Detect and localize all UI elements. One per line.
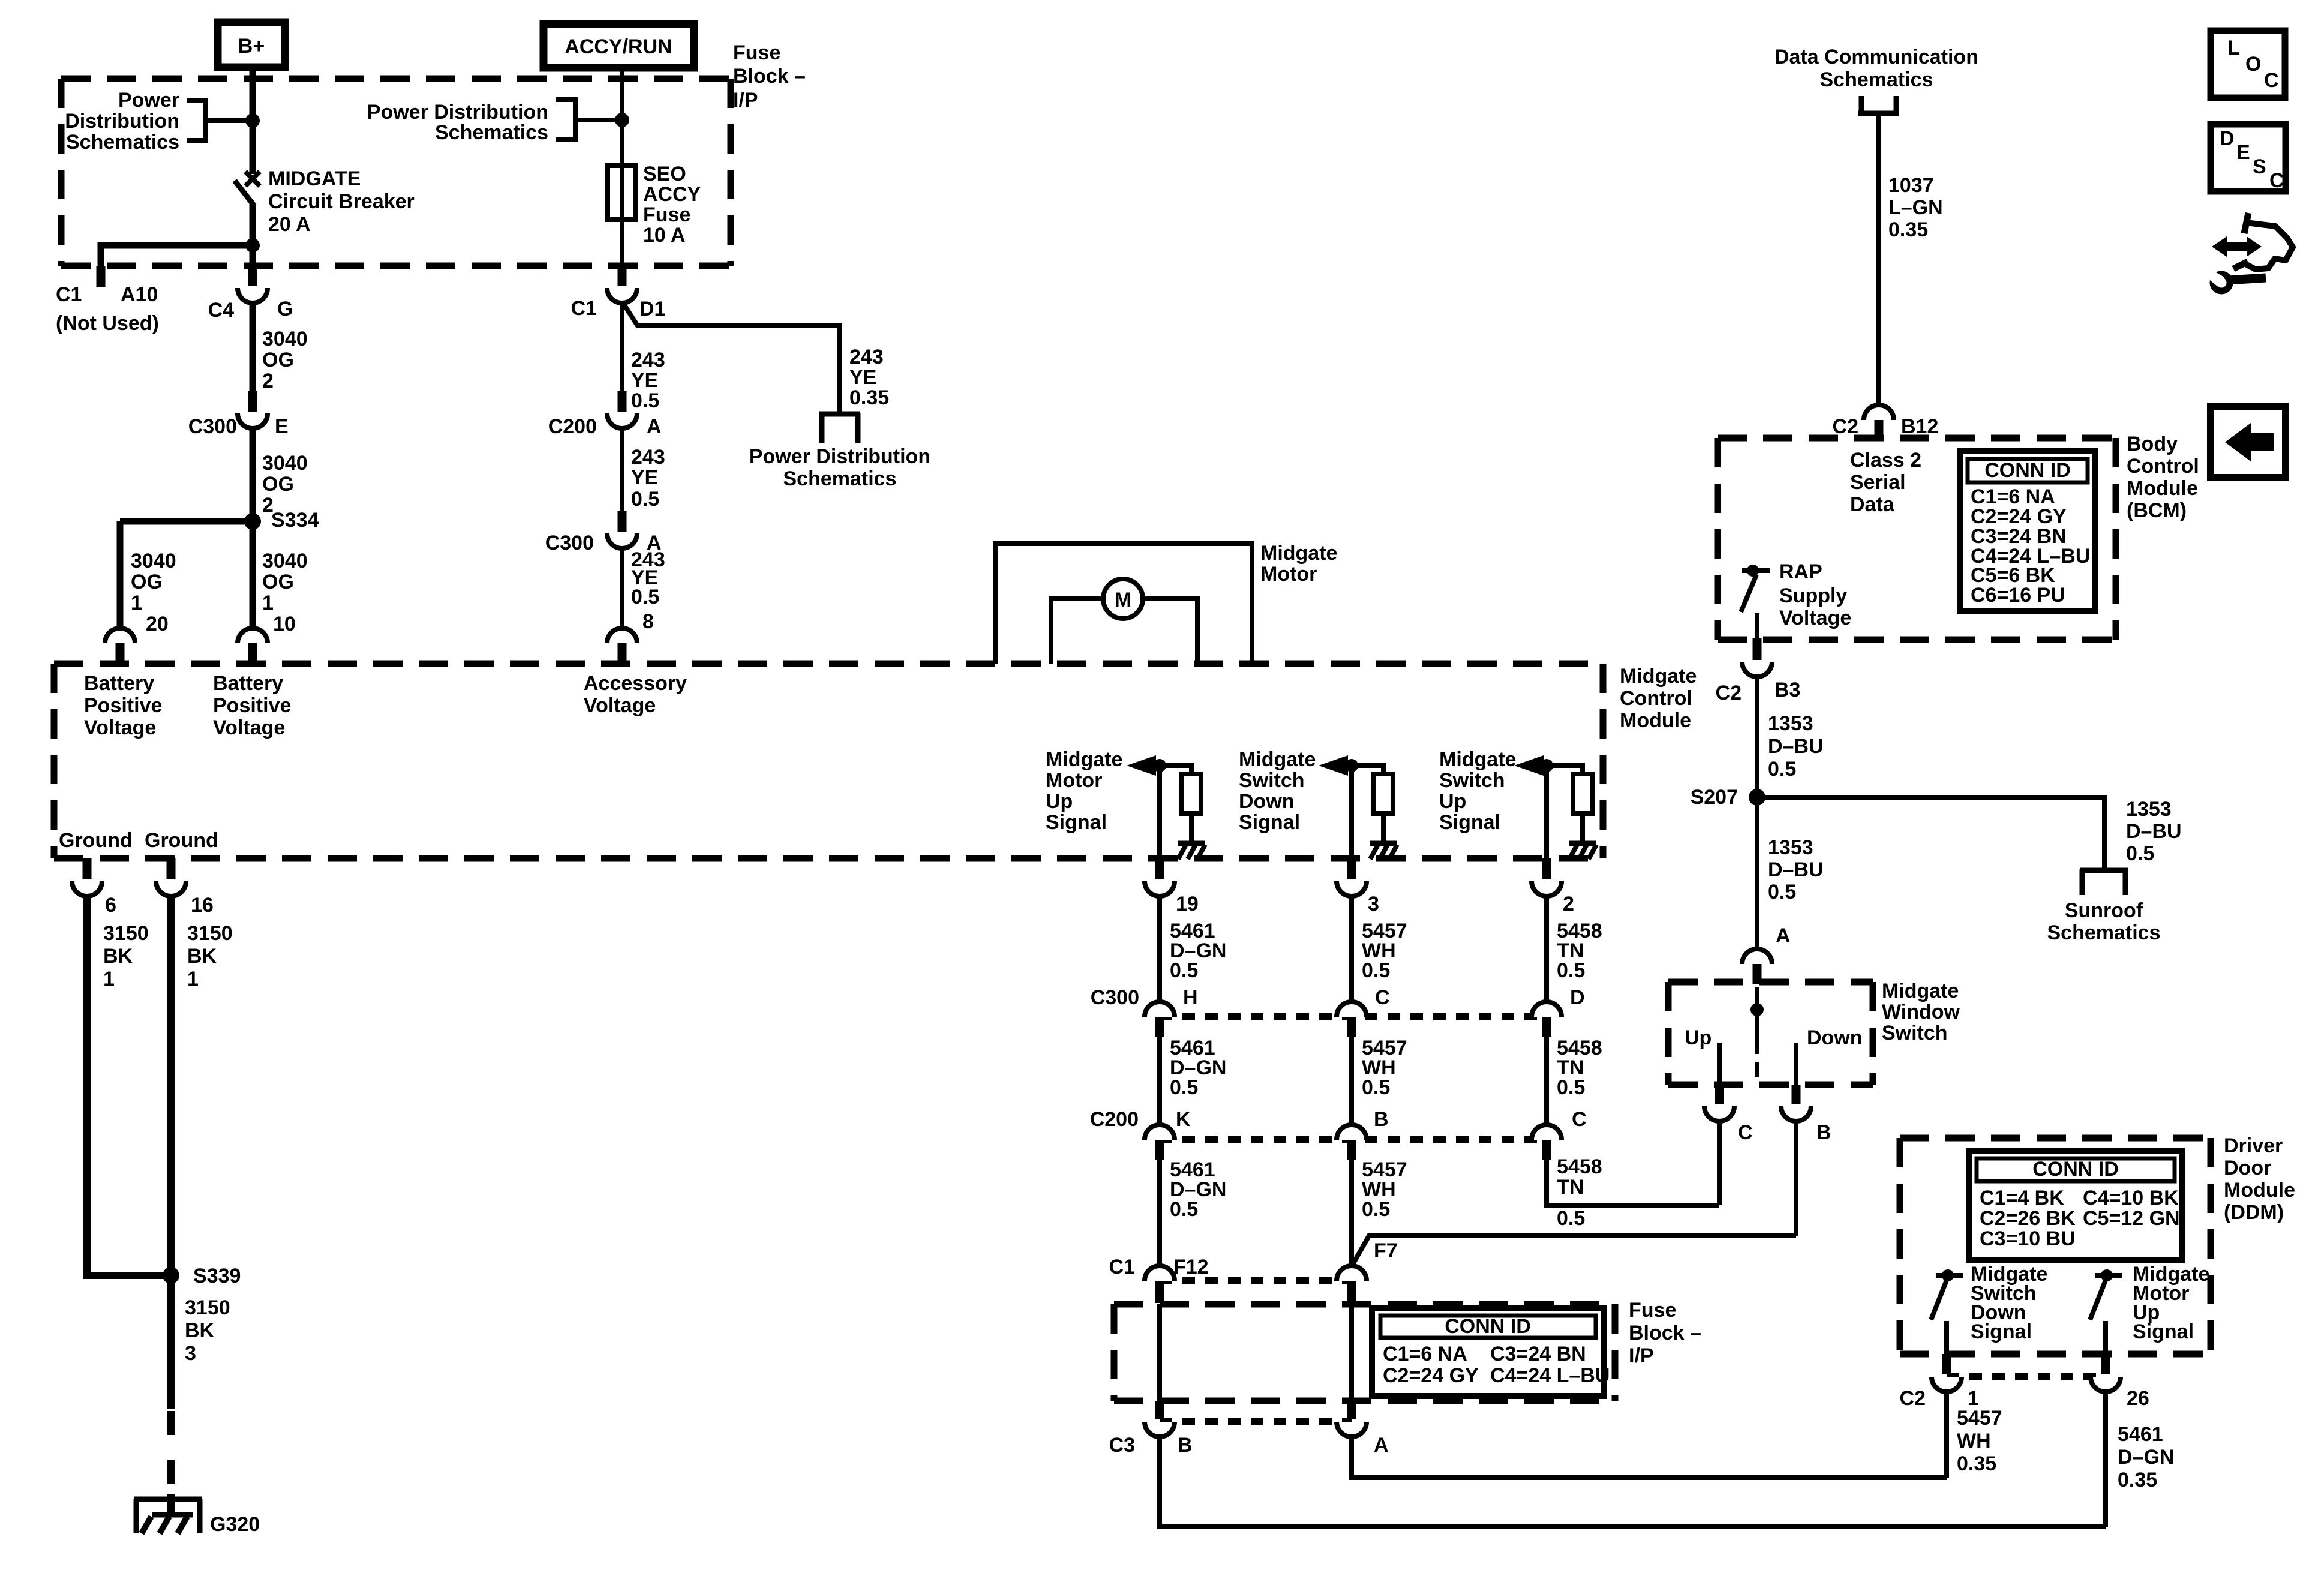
connector pin A (window switch) — [1742, 949, 1772, 964]
connector C2 pin B3 — [1753, 638, 1762, 660]
wire 5457 WH 0.5 (C200 to C1 F7) — [1349, 1160, 1354, 1267]
svg-text:TN: TN — [1557, 1176, 1584, 1199]
svg-text:8: 8 — [642, 610, 654, 633]
body control module (BCM) dashed box — [1718, 435, 2116, 442]
svg-text:Schematics: Schematics — [1820, 68, 1933, 91]
svg-text:C: C — [1572, 1108, 1587, 1131]
icon DESC box — [2211, 124, 2286, 191]
wire 1353 D-BU 0.5 (S207 to window switch A) — [1755, 797, 1759, 950]
svg-text:0.5: 0.5 — [1557, 1076, 1585, 1099]
splice S207 — [1749, 789, 1765, 806]
svg-text:Distribution: Distribution — [65, 110, 179, 133]
svg-text:1353: 1353 — [1768, 712, 1813, 735]
switch Midgate Motor Up Signal (DDM) — [2095, 1273, 2122, 1278]
wire 5457 WH (C3 A to DDM pin 1) — [1352, 1437, 1947, 1478]
svg-text:Schematics: Schematics — [66, 131, 179, 154]
switch Midgate Switch Down Signal (DDM) — [1936, 1273, 1963, 1278]
wire ACCY down — [620, 68, 624, 267]
svg-text:Ground: Ground — [59, 829, 133, 852]
svg-text:L–GN: L–GN — [1888, 196, 1943, 219]
svg-text:0.5: 0.5 — [1362, 1198, 1390, 1221]
svg-text:Signal: Signal — [1046, 811, 1107, 834]
svg-text:Motor: Motor — [1260, 563, 1317, 586]
svg-text:S: S — [2253, 155, 2266, 178]
svg-text:Control: Control — [1620, 687, 1692, 710]
svg-text:Class 2: Class 2 — [1850, 449, 1921, 472]
svg-text:MIDGATE: MIDGATE — [268, 167, 361, 190]
connector pin 8 — [607, 628, 637, 643]
svg-text:16: 16 — [191, 894, 214, 917]
svg-text:C300: C300 — [188, 415, 237, 438]
resistor (module internal) — [1374, 774, 1393, 813]
svg-text:0.35: 0.35 — [1888, 218, 1928, 241]
svg-text:D: D — [1570, 986, 1585, 1009]
svg-text:1: 1 — [262, 592, 274, 614]
svg-text:Control: Control — [2127, 455, 2199, 478]
svg-text:Fuse: Fuse — [643, 203, 690, 226]
wire 3150 BK 3 (S339 to G320) — [167, 1275, 175, 1409]
svg-text:D1: D1 — [639, 298, 665, 320]
svg-text:RAP: RAP — [1779, 560, 1822, 583]
ground G320 — [134, 1499, 139, 1533]
svg-text:10: 10 — [273, 613, 296, 635]
svg-text:C4: C4 — [208, 299, 235, 322]
svg-text:5458: 5458 — [1557, 1155, 1602, 1178]
connector row C2 pins 1 / 26 — [1942, 1354, 1951, 1374]
svg-text:Down: Down — [1807, 1026, 1863, 1049]
svg-text:20 A: 20 A — [268, 213, 311, 236]
wire 5457 WH 0.35 (pin 1) — [1944, 1392, 1949, 1478]
svg-text:0.5: 0.5 — [2126, 842, 2154, 865]
svg-text:C200: C200 — [548, 415, 597, 438]
svg-text:K: K — [1176, 1108, 1191, 1131]
svg-text:H: H — [1183, 986, 1198, 1009]
wire breaker to junction — [250, 204, 256, 245]
svg-text:C1=6 NA: C1=6 NA — [1383, 1343, 1467, 1365]
junction dot at B+/Power Distribution tap — [245, 113, 260, 128]
svg-text:SEO: SEO — [643, 163, 686, 185]
svg-text:1: 1 — [187, 968, 199, 990]
svg-text:ACCY: ACCY — [643, 183, 701, 206]
svg-text:BK: BK — [103, 945, 133, 968]
junction dot below breaker — [245, 238, 260, 253]
svg-text:1037: 1037 — [1888, 174, 1934, 197]
svg-text:0.5: 0.5 — [631, 488, 659, 511]
wire signal down to module edge — [1349, 766, 1354, 860]
svg-text:Midgate: Midgate — [1046, 748, 1122, 771]
wire 243 YE 0.5 (C200 to C300) — [620, 428, 624, 512]
wire 1353 D-BU 0.5 (S207 to sunroof) — [1757, 797, 2104, 869]
arrow Midgate Motor Up Signal — [1127, 755, 1156, 776]
svg-text:0.5: 0.5 — [631, 586, 659, 608]
svg-text:I/P: I/P — [1629, 1344, 1654, 1367]
svg-text:Module: Module — [2224, 1179, 2295, 1202]
off-page symbol Sunroof Schematics — [2080, 869, 2085, 895]
svg-text:C2=26 BK: C2=26 BK — [1980, 1207, 2076, 1230]
svg-text:A: A — [647, 415, 662, 438]
svg-text:S339: S339 — [193, 1265, 241, 1287]
connector pin 2 — [1542, 858, 1551, 879]
svg-text:Midgate: Midgate — [1439, 748, 1516, 771]
wire 1037 L-GN 0.35 — [1876, 116, 1881, 406]
svg-text:D: D — [2220, 127, 2235, 150]
connector pin 10 — [238, 628, 268, 643]
svg-text:Up: Up — [1439, 790, 1466, 813]
svg-text:3150: 3150 — [103, 922, 149, 945]
svg-text:0.5: 0.5 — [1170, 1076, 1198, 1099]
svg-text:OG: OG — [262, 571, 294, 593]
connector row C300 H/C/D — [1160, 1013, 1547, 1020]
svg-text:B3: B3 — [1774, 679, 1800, 701]
svg-text:Battery: Battery — [84, 672, 154, 695]
wire 243 YE 0.5 (D1 to C200) — [620, 303, 624, 392]
svg-text:B: B — [1374, 1108, 1389, 1131]
svg-text:1353: 1353 — [1768, 836, 1813, 859]
svg-text:WH: WH — [1957, 1430, 1991, 1452]
svg-text:0.35: 0.35 — [2118, 1469, 2157, 1491]
svg-text:20: 20 — [146, 613, 169, 635]
svg-text:Voltage: Voltage — [1779, 607, 1851, 629]
wire F12 through fuse block — [1157, 1304, 1162, 1402]
svg-text:YE: YE — [849, 366, 876, 389]
svg-text:Block –: Block – — [733, 65, 806, 88]
svg-text:B: B — [1178, 1434, 1193, 1457]
svg-text:(Not Used): (Not Used) — [56, 312, 159, 335]
icon diagnostic (double arrow, door, wrench) — [2212, 236, 2262, 257]
svg-text:A: A — [1374, 1434, 1389, 1457]
svg-text:B+: B+ — [238, 35, 265, 58]
wire 5461 D-GN 0.5 (pin19 to C300 H) — [1157, 896, 1162, 1003]
svg-text:Positive: Positive — [84, 694, 162, 717]
wire diagonal F7 to window switch B — [1352, 1236, 1796, 1266]
svg-text:Schematics: Schematics — [783, 467, 897, 490]
motor M leads — [1051, 599, 1103, 664]
svg-text:1: 1 — [103, 968, 115, 990]
svg-text:YE: YE — [631, 466, 658, 489]
svg-text:C: C — [2264, 69, 2279, 92]
motor M circle — [1103, 579, 1143, 619]
svg-text:Signal: Signal — [1971, 1320, 2032, 1343]
wire 3040 OG 2 (C4 to C300) — [250, 303, 256, 392]
svg-text:BK: BK — [185, 1319, 215, 1342]
svg-text:M: M — [1115, 589, 1131, 611]
svg-text:Data Communication: Data Communication — [1774, 46, 1978, 68]
wire 5458 TN 0.5 (pin2 to C300 D) — [1544, 896, 1549, 1003]
svg-text:Positive: Positive — [213, 694, 291, 717]
svg-text:C1: C1 — [571, 297, 597, 320]
connector pin 20 — [105, 628, 135, 643]
connector row C3 B/A — [1155, 1401, 1164, 1419]
svg-text:Midgate: Midgate — [1620, 665, 1697, 688]
ground (module internal) — [1370, 841, 1397, 846]
connector pin 19 — [1155, 858, 1164, 879]
svg-text:A10: A10 — [121, 283, 158, 306]
svg-text:243: 243 — [849, 346, 884, 368]
svg-text:Voltage: Voltage — [213, 716, 285, 739]
wire B+ down to breaker — [250, 67, 256, 174]
svg-text:Fuse: Fuse — [1629, 1299, 1676, 1322]
wire 5457 WH 0.5 (C300 to C200) — [1349, 1037, 1354, 1126]
icon back-arrow box — [2211, 407, 2286, 478]
wire 3040 OG 1 left branch to pin 20 — [117, 521, 124, 629]
svg-text:D–GN: D–GN — [2118, 1446, 2174, 1469]
svg-text:(DDM): (DDM) — [2224, 1201, 2284, 1224]
svg-text:C300: C300 — [545, 532, 594, 554]
svg-text:C200: C200 — [1090, 1108, 1139, 1131]
svg-text:C300: C300 — [1091, 986, 1139, 1009]
junction dot — [1345, 759, 1358, 772]
wire 3150 BK 1 (pin 6 to S339) — [87, 896, 171, 1275]
wire switch B down — [1794, 1121, 1798, 1236]
svg-text:Door: Door — [2224, 1157, 2271, 1179]
svg-text:CONN ID: CONN ID — [1445, 1315, 1531, 1338]
circuit breaker MIDGATE 20 A — [245, 172, 260, 186]
svg-text:Midgate: Midgate — [1260, 542, 1337, 565]
connector pin C — [1715, 1085, 1724, 1104]
svg-text:OG: OG — [262, 349, 294, 371]
svg-text:3040: 3040 — [262, 550, 308, 572]
svg-text:BK: BK — [187, 945, 217, 968]
svg-text:0.5: 0.5 — [1170, 1198, 1198, 1221]
off-page symbol Power Distribution Schematics (branch) — [819, 413, 825, 443]
svg-text:0.5: 0.5 — [1362, 1076, 1390, 1099]
svg-text:Motor: Motor — [1046, 769, 1102, 792]
svg-text:Accessory: Accessory — [584, 672, 687, 695]
svg-text:3040: 3040 — [131, 550, 176, 572]
splice S334 — [120, 518, 253, 525]
svg-text:D–BU: D–BU — [1768, 735, 1824, 758]
CONN ID table (BCM) — [1960, 451, 2095, 611]
resistor (module internal) — [1573, 774, 1592, 813]
svg-text:E: E — [2236, 141, 2250, 164]
wire 5461 D-GN 0.35 (pin 26) — [2103, 1392, 2108, 1527]
svg-text:2: 2 — [262, 370, 274, 392]
svg-text:0.5: 0.5 — [1768, 758, 1796, 781]
svg-text:E: E — [275, 415, 289, 438]
svg-text:3150: 3150 — [185, 1296, 230, 1319]
wire resistor to ground — [1381, 813, 1386, 842]
svg-text:Signal: Signal — [1439, 811, 1500, 834]
svg-text:Voltage: Voltage — [84, 716, 156, 739]
svg-text:I/P: I/P — [733, 89, 758, 112]
wire 243 YE 0.5 (C300 to pin 8) — [620, 548, 624, 629]
svg-text:B: B — [1816, 1121, 1831, 1144]
junction dot — [1540, 759, 1553, 772]
midgate window switch dashed box — [1668, 979, 1873, 986]
svg-text:A: A — [1776, 924, 1791, 947]
svg-text:Power: Power — [118, 89, 179, 112]
svg-text:OG: OG — [262, 473, 294, 496]
RAP supply voltage switch — [1742, 568, 1770, 573]
svg-text:0.5: 0.5 — [1557, 1207, 1585, 1230]
svg-text:Signal: Signal — [1239, 811, 1300, 834]
svg-text:Power Distribution: Power Distribution — [367, 101, 548, 124]
svg-text:3: 3 — [1368, 893, 1379, 915]
svg-text:19: 19 — [1176, 893, 1199, 915]
fuse block I/P (bottom) dashed box — [1114, 1301, 1615, 1308]
wire switch C down — [1717, 1121, 1722, 1205]
connector C300 pin A — [618, 511, 627, 532]
svg-text:S207: S207 — [1691, 786, 1738, 809]
svg-text:Circuit Breaker: Circuit Breaker — [268, 190, 415, 213]
svg-text:Schematics: Schematics — [2047, 921, 2161, 944]
svg-text:243: 243 — [631, 446, 665, 469]
CONN ID table (fuse block) — [1372, 1308, 1604, 1396]
wire 5461 D-GN 0.5 (C200 to C1 F12) — [1157, 1160, 1162, 1267]
wire 1353 D-BU 0.5 (B3 to S207) — [1755, 677, 1759, 797]
fuse SEO ACCY 10 A — [608, 166, 635, 220]
connector C1 pin D1 — [618, 265, 627, 286]
svg-text:G320: G320 — [210, 1513, 260, 1536]
svg-text:C2: C2 — [1833, 415, 1858, 438]
svg-text:F12: F12 — [1173, 1256, 1209, 1278]
svg-text:O: O — [2245, 53, 2261, 76]
svg-text:Ground: Ground — [145, 829, 218, 852]
svg-text:Module: Module — [2127, 477, 2198, 500]
svg-text:Window: Window — [1882, 1001, 1960, 1023]
svg-text:C1: C1 — [1109, 1256, 1135, 1278]
svg-text:YE: YE — [631, 369, 658, 392]
wire 5458 TN 0.5 (C200 C to window switch C) — [1547, 1160, 1719, 1205]
svg-text:Up: Up — [1685, 1026, 1712, 1049]
svg-text:3: 3 — [185, 1342, 196, 1365]
svg-text:C1=4 BK: C1=4 BK — [1980, 1187, 2064, 1209]
connector pin B — [1792, 1085, 1801, 1104]
svg-text:C4=10 BK: C4=10 BK — [2083, 1187, 2179, 1209]
svg-text:Sunroof: Sunroof — [2065, 899, 2143, 922]
svg-text:C1: C1 — [56, 283, 82, 306]
svg-text:Down: Down — [1239, 790, 1295, 813]
svg-text:243: 243 — [631, 349, 665, 371]
connector pin 6 — [83, 858, 92, 879]
connector row C1 F12/F7 — [1160, 1277, 1352, 1284]
svg-text:OG: OG — [131, 571, 163, 593]
svg-text:Switch: Switch — [1882, 1022, 1948, 1044]
svg-text:CONN ID: CONN ID — [1984, 459, 2071, 482]
svg-text:Switch: Switch — [1439, 769, 1505, 792]
svg-text:C: C — [2269, 169, 2284, 192]
wire 5458 TN 0.5 (C300 to C200) — [1544, 1037, 1549, 1126]
svg-text:Module: Module — [1620, 709, 1691, 732]
svg-text:C2: C2 — [1900, 1387, 1926, 1410]
svg-text:Up: Up — [1046, 790, 1073, 813]
connector C300 pin E — [248, 391, 257, 412]
svg-text:C: C — [1738, 1121, 1753, 1144]
svg-text:Signal: Signal — [2133, 1320, 2194, 1343]
svg-text:1353: 1353 — [2126, 798, 2172, 821]
svg-text:0.5: 0.5 — [1170, 959, 1198, 982]
wire 3040 OG 1 right branch to pin 10 — [250, 521, 256, 629]
wire arrow to resistor — [1542, 766, 1583, 775]
connector pin 3 — [1347, 858, 1356, 879]
CONN ID table (DDM) — [1969, 1151, 2182, 1260]
svg-text:Switch: Switch — [1239, 769, 1305, 792]
svg-text:ACCY/RUN: ACCY/RUN — [565, 35, 672, 58]
wire arrow to resistor — [1155, 766, 1191, 775]
switch wiper — [1755, 987, 1759, 1010]
svg-text:C5=12 GN: C5=12 GN — [2083, 1207, 2180, 1230]
svg-text:(BCM): (BCM) — [2127, 499, 2187, 522]
svg-text:G: G — [277, 298, 293, 320]
wire signal down to module edge — [1544, 766, 1549, 860]
ground (module internal) — [1178, 841, 1205, 846]
svg-text:Data: Data — [1850, 493, 1895, 516]
junction dot — [1153, 759, 1166, 772]
svg-text:3150: 3150 — [187, 922, 233, 945]
wire arrow to resistor — [1347, 766, 1383, 775]
wire resistor to ground — [1189, 813, 1194, 842]
wire 5461 D-GN 0.5 (C300 to C200) — [1157, 1037, 1162, 1126]
svg-text:C3=10 BU: C3=10 BU — [1980, 1227, 2076, 1250]
wire resistor to ground — [1580, 813, 1585, 842]
splice S339 — [163, 1267, 179, 1284]
svg-text:Driver: Driver — [2224, 1134, 2283, 1157]
svg-text:Battery: Battery — [213, 672, 283, 695]
svg-text:C: C — [1375, 986, 1390, 1009]
resistor (module internal) — [1182, 774, 1201, 813]
svg-text:B12: B12 — [1901, 415, 1938, 438]
icon LOC box — [2211, 31, 2285, 98]
svg-text:Fuse: Fuse — [733, 41, 780, 64]
svg-text:Power Distribution: Power Distribution — [749, 445, 930, 468]
connector C200 pin A — [618, 391, 627, 412]
svg-text:C2: C2 — [1716, 682, 1742, 704]
arrow Midgate Switch Up Signal — [1514, 755, 1544, 776]
wire F7 through fuse block — [1349, 1304, 1354, 1402]
svg-text:F7: F7 — [1374, 1239, 1398, 1262]
svg-text:5461: 5461 — [2118, 1423, 2163, 1446]
svg-text:Schematics: Schematics — [435, 121, 548, 144]
svg-text:D–BU: D–BU — [2126, 820, 2182, 843]
svg-text:Body: Body — [2127, 433, 2178, 455]
fuse block I/P (top) dashed box — [61, 76, 731, 82]
svg-text:3040: 3040 — [262, 328, 308, 350]
connector pin 16 — [167, 858, 176, 879]
svg-text:Midgate: Midgate — [1239, 748, 1316, 771]
wire branch 243 YE 0.35 to Power Distribution — [623, 302, 840, 413]
power symbol B+ box — [218, 22, 285, 67]
power symbol ACCY/RUN box — [544, 24, 694, 68]
svg-text:Midgate: Midgate — [1882, 980, 1959, 1002]
svg-text:C4=24 L–BU: C4=24 L–BU — [1490, 1364, 1610, 1387]
svg-text:0.35: 0.35 — [1957, 1452, 1996, 1475]
svg-text:C3: C3 — [1109, 1434, 1135, 1457]
svg-text:Voltage: Voltage — [584, 694, 656, 717]
midgate control module dashed box — [54, 661, 1603, 667]
svg-text:Block –: Block – — [1629, 1322, 1701, 1344]
svg-text:0.5: 0.5 — [631, 389, 659, 412]
svg-text:0.5: 0.5 — [1768, 881, 1796, 903]
svg-text:Serial: Serial — [1850, 471, 1906, 494]
svg-text:5457: 5457 — [1957, 1407, 2002, 1430]
wire 5457 WH 0.5 (pin3 to C300 C) — [1349, 896, 1354, 1003]
connector row C200 K/B/C — [1160, 1136, 1547, 1143]
svg-text:Supply: Supply — [1779, 584, 1847, 607]
svg-text:2: 2 — [1563, 893, 1574, 915]
wire 5461 D-GN (C3 B to DDM pin 26) — [1160, 1437, 2106, 1527]
svg-text:0.5: 0.5 — [1362, 959, 1390, 982]
svg-text:0.35: 0.35 — [849, 386, 889, 409]
arrow Midgate Switch Down Signal — [1319, 755, 1348, 776]
ground (module internal) — [1569, 841, 1596, 846]
svg-text:0.5: 0.5 — [1557, 959, 1585, 982]
svg-text:26: 26 — [2127, 1387, 2149, 1410]
midgate motor housing — [996, 544, 1252, 664]
svg-text:C2=24 GY: C2=24 GY — [1383, 1364, 1479, 1387]
driver door module (DDM) dashed box — [1900, 1135, 2211, 1142]
svg-text:CONN ID: CONN ID — [2032, 1158, 2119, 1181]
wire 3040 OG 2 (C300 to S334) — [250, 428, 256, 521]
